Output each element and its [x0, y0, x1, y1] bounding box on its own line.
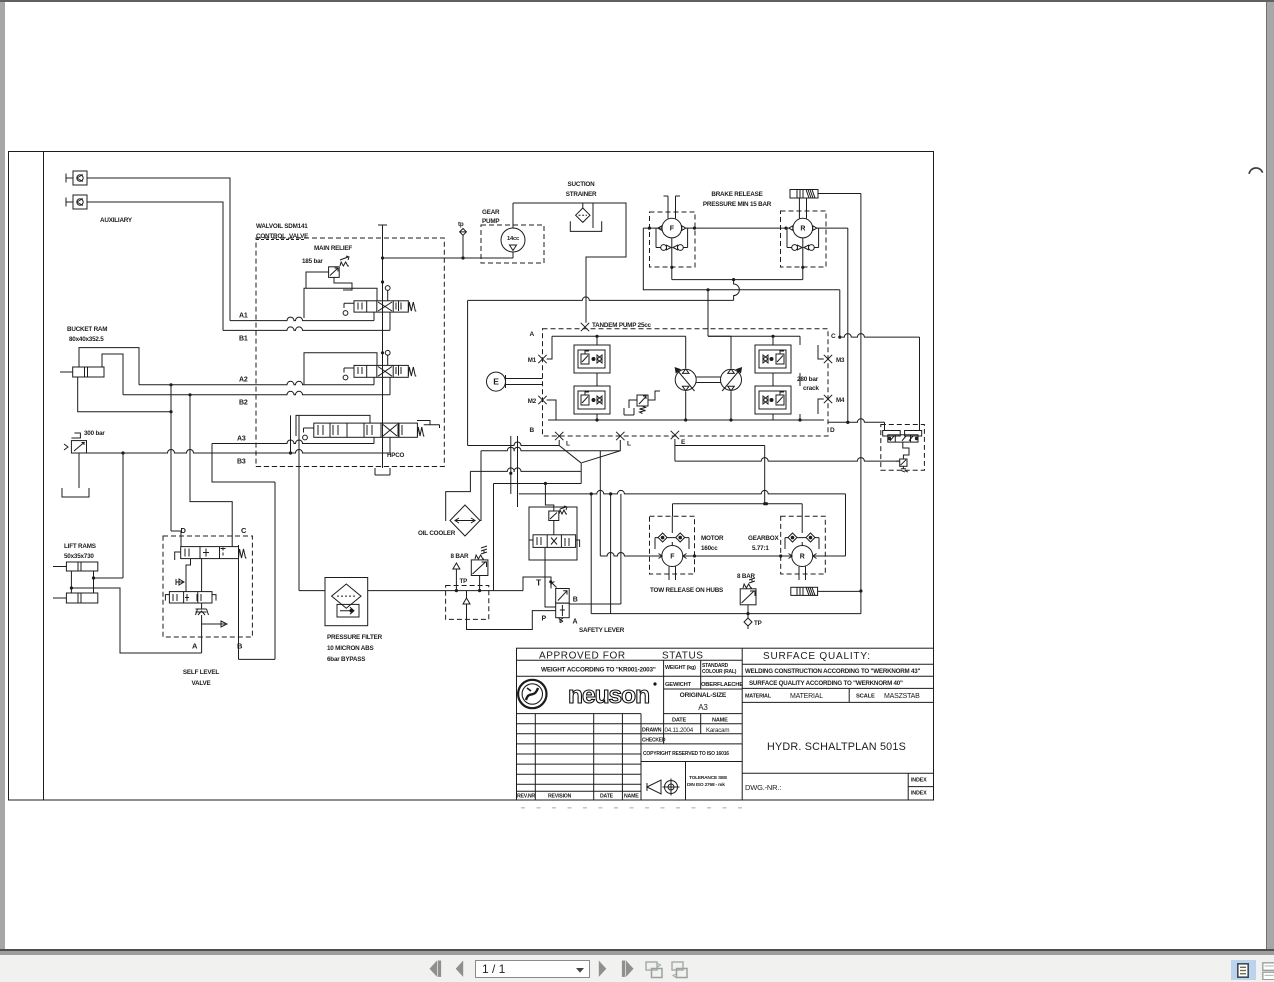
vertical F feed: [672, 504, 674, 517]
suction line: [513, 203, 626, 323]
safety lever valve: [550, 581, 570, 623]
relief pilot step: [334, 277, 352, 290]
cylinder lift ram 1: [53, 562, 98, 571]
cylinder lift ram 2: [53, 593, 98, 603]
print artifacts below frame: [521, 807, 742, 809]
svg-text:C: C: [831, 333, 836, 340]
svg-text:DWG.-NR.:: DWG.-NR.:: [745, 783, 781, 792]
svg-text:BUCKET RAM: BUCKET RAM: [67, 326, 107, 333]
svg-text:OIL COOLER: OIL COOLER: [418, 530, 456, 537]
vertical return to filter: [493, 484, 495, 591]
wire filter feed: [299, 590, 325, 592]
svg-text:DIN ISO 2768 - mk: DIN ISO 2768 - mk: [687, 782, 725, 788]
wire A1: [230, 317, 374, 320]
svg-text:OBERFLAECHE: OBERFLAECHE: [701, 682, 743, 688]
relief valve 300 bar: [64, 433, 87, 453]
material row: [742, 688, 933, 702]
spool 2 lever: [344, 368, 354, 373]
svg-text:P: P: [542, 616, 547, 623]
svg-text:M2: M2: [528, 398, 537, 405]
vertical charge drop 1: [510, 436, 512, 494]
svg-text:E: E: [493, 377, 499, 387]
oil cooler right drop: [480, 520, 481, 522]
svg-text:TP: TP: [754, 620, 762, 627]
svg-text:PRESSURE FILTER: PRESSURE FILTER: [327, 634, 383, 641]
wire F-R bottom return: [672, 279, 803, 281]
quick coupler AUX1: [66, 171, 87, 185]
wire pump to valve: [383, 257, 514, 259]
check valve in 8bar box: [463, 591, 470, 620]
original size cell: [664, 713, 743, 715]
svg-text:A3: A3: [698, 703, 708, 712]
svg-text:B: B: [237, 642, 243, 651]
svg-text:L: L: [566, 441, 570, 448]
svg-text:STRAINER: STRAINER: [566, 191, 597, 198]
drawing frame border: [9, 152, 934, 801]
svg-text:A: A: [192, 642, 198, 651]
drawn row: [641, 714, 742, 744]
svg-text:NAME: NAME: [624, 794, 639, 800]
gear pump 14cc: [501, 228, 525, 252]
tandem internal gallery left: [596, 335, 598, 345]
svg-text:M4: M4: [836, 397, 845, 404]
svg-text:Karacam: Karacam: [706, 727, 729, 734]
svg-text:L: L: [627, 441, 631, 448]
svg-text:M3: M3: [836, 357, 845, 364]
svg-text:R: R: [800, 226, 805, 233]
revision grid: [517, 714, 642, 800]
vertical to charge valve: [545, 484, 553, 512]
svg-text:5.77:1: 5.77:1: [752, 545, 769, 552]
test point M4: [824, 395, 832, 403]
valve spool 3 body: [314, 423, 418, 437]
self level A port: [201, 637, 203, 653]
svg-text:CHECKED: CHECKED: [642, 738, 666, 744]
wire B2 branch down: [190, 395, 232, 536]
vertical E drain drop: [674, 439, 676, 461]
svg-text:REV.NR: REV.NR: [517, 794, 535, 800]
svg-text:T: T: [536, 578, 542, 588]
valve 8bar square: [471, 546, 488, 591]
wire lift rams right link: [93, 571, 95, 593]
svg-text:F: F: [670, 226, 675, 233]
right trunk vertical from R: [847, 228, 849, 422]
svg-text:F: F: [670, 554, 675, 561]
wire filter to T: [523, 577, 551, 591]
wire bus C into relief: [896, 460, 900, 462]
continuous view icon (cut off at edge): [1262, 962, 1274, 980]
gear pump enclosure: [481, 225, 544, 263]
wheel motor F front: [650, 196, 696, 280]
svg-text:PUMP: PUMP: [482, 218, 499, 225]
wire lift rams to B3 branch: [94, 577, 124, 579]
wire lift rams to A port: [71, 588, 201, 653]
nav: last page button: [621, 960, 634, 978]
vertical safety B riser: [620, 494, 622, 604]
relief pilot left stub: [306, 272, 329, 288]
charge valve block: [529, 506, 580, 560]
title block outer: [517, 648, 934, 800]
wire filter out: [368, 590, 523, 592]
svg-text:E: E: [681, 439, 686, 446]
svg-text:CONTROL_VALVE: CONTROL_VALVE: [256, 233, 308, 240]
wire A2 branch down: [170, 385, 172, 531]
control valve enclosure WALVOIL SDM141: [256, 238, 444, 467]
svg-text:10 MICRON ABS: 10 MICRON ABS: [327, 645, 374, 652]
single page view icon (selected, blue): [1231, 960, 1256, 980]
test point M3: [824, 355, 832, 363]
wire bus A right: [675, 445, 765, 447]
svg-text:WELDING CONSTRUCTION ACCORDI: WELDING CONSTRUCTION ACCORDING TO "WERKN…: [745, 668, 920, 675]
svg-text:COPYRIGHT RESERVED TO ISO: COPYRIGHT RESERVED TO ISO 16016: [643, 751, 729, 757]
title block gewicht row: [664, 688, 743, 690]
wire return jog: [734, 280, 740, 301]
wire 8bar drain to safety P: [467, 611, 556, 630]
svg-text:VALVE: VALVE: [191, 680, 210, 687]
spool 3 top ticks: [417, 421, 440, 429]
test point E drain: [671, 431, 679, 439]
svg-text:A1: A1: [239, 313, 248, 320]
svg-text:APPROVED FOR: APPROVED FOR: [539, 650, 626, 661]
svg-text:SAFETY LEVER: SAFETY LEVER: [579, 627, 625, 634]
svg-text:6bar BYPASS: 6bar BYPASS: [327, 656, 365, 663]
spool 1 pilot circle: [385, 286, 390, 291]
spool 3 pilot loop: [296, 415, 370, 436]
wire bucket ram cap to A2: [79, 348, 139, 385]
valve 8bar bottom: [740, 578, 756, 614]
spool 1 pilot loop: [304, 288, 377, 318]
tandem relief small: [624, 391, 660, 415]
pump left top feed: [685, 336, 687, 368]
svg-text:SURFACE QUALITY:: SURFACE QUALITY:: [763, 651, 871, 662]
vertical bus F right leg: [845, 494, 847, 556]
svg-text:80x40x352.5: 80x40x352.5: [69, 336, 104, 343]
pump shaft: [696, 377, 720, 383]
svg-text:D: D: [181, 526, 187, 535]
tandem internal top bus: [552, 335, 686, 337]
wire bus D: [470, 468, 581, 472]
vertical to oil cooler right: [480, 451, 482, 521]
wire return upper: [643, 289, 840, 291]
check block top-right: [755, 345, 791, 373]
svg-text:SURFACE QUALITY ACCORDING T: SURFACE QUALITY ACCORDING TO "WERKNORM 4…: [749, 680, 903, 687]
wire lift rams left link: [70, 571, 72, 593]
wire motor top rail: [673, 503, 803, 505]
svg-text:neuson: neuson: [568, 682, 649, 709]
wire main return lower: [468, 297, 734, 300]
nav: next page button: [598, 960, 607, 978]
loading spinner arc: [1244, 160, 1268, 184]
wire AUX1 to A1: [87, 178, 230, 321]
vertical charge drop 2: [517, 436, 519, 507]
svg-text:8 BAR: 8 BAR: [451, 553, 470, 560]
wire AUX2 to B1: [87, 202, 223, 330]
spool 1 port stubs: [374, 312, 390, 330]
wire bus C: [675, 458, 900, 462]
test point M2: [538, 396, 546, 404]
dwg nr row: [742, 773, 933, 800]
wire C to right valve: [840, 334, 920, 337]
spool 1 lever: [344, 303, 354, 308]
top gray bar: [0, 0, 1274, 2]
wire A3: [212, 440, 374, 443]
svg-text:TANDEM PUMP 25cc: TANDEM PUMP 25cc: [592, 322, 652, 329]
wire R drain dot: [801, 266, 804, 269]
wire F-R connect: [686, 227, 789, 229]
svg-text:PRESSURE MIN 15 BAR: PRESSURE MIN 15 BAR: [703, 201, 772, 208]
brake pilot trunk vertical: [860, 194, 862, 614]
vertical trunk drop x765: [764, 446, 766, 504]
svg-text:M1: M1: [528, 357, 537, 364]
wire relief to tank: [78, 453, 80, 488]
wire bus E: [494, 483, 582, 485]
spool 1 spring: [408, 302, 416, 311]
vertical drop x610: [610, 494, 612, 614]
svg-text:50x35x730: 50x35x730: [64, 553, 94, 560]
svg-text:TOW RELEASE ON HUBS: TOW RELEASE ON HUBS: [650, 587, 723, 594]
svg-text:B2: B2: [239, 400, 248, 407]
svg-text:A: A: [573, 619, 578, 626]
wire into towing valve top: [884, 422, 886, 430]
test point L1: [555, 432, 563, 440]
rotate ccw icon (disabled): [645, 961, 664, 979]
vertical spool3 drain to filter: [298, 415, 300, 590]
check block bottom-right: [755, 386, 791, 414]
wire B2: [123, 391, 390, 394]
pump circle right: [721, 368, 742, 391]
svg-text:BRAKE RELEASE: BRAKE RELEASE: [711, 191, 762, 198]
spool 3 port stubs: [374, 437, 390, 453]
tandem M2 stub: [547, 400, 556, 420]
suction strainer filter: [576, 203, 590, 222]
svg-text:B: B: [573, 597, 578, 604]
svg-text:C: C: [241, 526, 247, 535]
self level internal wires: [186, 559, 202, 592]
wire R right port: [813, 555, 846, 557]
wire B3: [87, 450, 391, 454]
wire brake release to main: [818, 193, 861, 195]
svg-text:TOLERANCE SEE: TOLERANCE SEE: [689, 775, 728, 781]
check block bottom-left: [574, 386, 610, 414]
pump left bottom: [685, 392, 687, 421]
spool 2 port stubs: [374, 377, 390, 395]
svg-text:GEARBOX: GEARBOX: [748, 535, 779, 542]
svg-text:NAME: NAME: [712, 717, 728, 723]
svg-text:MAIN RELIEF: MAIN RELIEF: [314, 245, 352, 252]
svg-text:SUCTION: SUCTION: [568, 181, 596, 188]
svg-text:300 bar: 300 bar: [84, 430, 105, 437]
wheel motor F bottom: [650, 516, 695, 580]
wheel motor R rear: [781, 198, 827, 280]
svg-text:COLOUR (RAL): COLOUR (RAL): [702, 669, 737, 675]
neuson logo: [518, 680, 657, 709]
welding row: [742, 648, 933, 800]
tandem right gallery: [772, 336, 774, 345]
vertical pilot drop: [590, 494, 592, 614]
svg-text:DATE: DATE: [672, 717, 686, 723]
tolerance cell: [647, 762, 728, 801]
svg-text:GEAR: GEAR: [482, 209, 500, 216]
wire bucket ram rod to B2: [102, 354, 123, 395]
control valve bottom edge: [256, 466, 444, 468]
svg-text:INDEX: INDEX: [911, 791, 927, 797]
right gray strip: [1266, 2, 1274, 950]
vertical to C corner: [839, 290, 841, 337]
svg-text:WALVOIL SDM141: WALVOIL SDM141: [256, 223, 308, 230]
spool 2 spring: [408, 367, 416, 376]
pressure filter: [325, 578, 368, 626]
vertical right valve feed: [919, 337, 921, 430]
wire brake bottom to trunk: [818, 590, 861, 592]
svg-text:14cc: 14cc: [507, 236, 520, 242]
svg-text:crack: crack: [803, 385, 819, 392]
left gray strip: [0, 2, 5, 950]
svg-text:STATUS: STATUS: [662, 650, 704, 661]
svg-text:B3: B3: [237, 459, 246, 466]
self level B port wire: [238, 545, 240, 559]
self level valve enclosure: [163, 536, 252, 637]
frame margin column line: [43, 152, 45, 801]
svg-text:DRAWN: DRAWN: [642, 728, 662, 734]
tandem M3 stub: [818, 345, 824, 359]
svg-text:WEIGHT ACCORDING TO "KR001-: WEIGHT ACCORDING TO "KR001-2003": [541, 667, 656, 674]
svg-text:R: R: [800, 554, 805, 561]
tandem internal bottom bus: [548, 419, 824, 421]
tandem M1 stub: [547, 336, 552, 359]
test point TP mid: [453, 563, 467, 591]
tandem M4 stub: [818, 399, 824, 414]
wire B1: [223, 327, 390, 331]
wire bottom drain bus: [591, 613, 861, 615]
oil cooler: [450, 505, 480, 536]
svg-text:A3: A3: [237, 436, 246, 443]
valve spool 1 body: [354, 301, 408, 312]
test point TP bottom: [744, 614, 762, 629]
nav: prev page button: [455, 960, 464, 978]
test point tp: [458, 221, 466, 258]
wire charge valve drain: [545, 560, 556, 607]
svg-text:MOTOR: MOTOR: [701, 535, 724, 542]
svg-text:SCALE: SCALE: [856, 694, 875, 700]
quick coupler AUX2: [66, 195, 87, 209]
vertical spool3 drain to B3: [290, 415, 292, 453]
L1 stub and V left: [559, 440, 581, 463]
towing valve spools: [883, 431, 922, 443]
V vertex drop: [580, 463, 582, 484]
vertical drop x600: [599, 451, 601, 556]
brake release cylinder bottom: [791, 587, 818, 595]
svg-text:A2: A2: [239, 377, 248, 384]
test point L2: [616, 432, 624, 440]
spool 2 pilot circle: [385, 350, 390, 355]
bottom toolbar: [0, 955, 1274, 982]
oil cooler left loop: [446, 471, 471, 521]
8 bar valve enclosure: [446, 586, 489, 620]
title block header row: [517, 659, 743, 661]
cylinder bucket ram: [60, 367, 104, 377]
vertical A3-B feed: [274, 482, 276, 659]
tandem pump enclosure: [543, 329, 829, 436]
svg-text:TP: TP: [460, 578, 468, 585]
wire gear pump suction: [512, 203, 514, 258]
tank under control valve: [375, 468, 390, 475]
svg-text:B1: B1: [239, 336, 248, 343]
engine E: [487, 372, 543, 391]
test point M1: [538, 355, 546, 363]
brake release cylinder top: [790, 190, 818, 199]
svg-text:GEWICHT: GEWICHT: [665, 682, 692, 688]
tank symbol 300bar: [62, 488, 89, 497]
wheel motor R bottom: [781, 504, 826, 580]
svg-text:160cc: 160cc: [701, 545, 718, 552]
nav: first page button: [429, 960, 442, 978]
svg-text:B: B: [530, 427, 535, 434]
svg-text:MASZSTAB: MASZSTAB: [884, 693, 920, 700]
rotate cw icon (disabled): [671, 961, 690, 979]
wire D bus: [828, 419, 885, 423]
wire F-R bottom connect: [683, 555, 792, 557]
svg-text:AUXILIARY: AUXILIARY: [100, 217, 133, 224]
svg-text:WEIGHT (kg): WEIGHT (kg): [665, 665, 696, 671]
tandem right edge feeds: [799, 336, 801, 420]
L2 stub and V right: [582, 440, 621, 463]
supply gallery vertical: [382, 225, 384, 468]
self level check: [176, 579, 184, 585]
self level shuttle: [196, 609, 209, 615]
valve spool 2 body: [354, 365, 408, 377]
spool 3 lever: [304, 428, 314, 433]
spool 2 pilot loop: [304, 353, 377, 385]
relief valve main 185bar: [329, 256, 349, 277]
tank suction: [570, 221, 601, 231]
title block weight row: [517, 675, 743, 677]
copyright cell: [641, 761, 742, 763]
svg-text:LIFT RAMS: LIFT RAMS: [64, 543, 96, 550]
wire F left feed: [643, 228, 662, 290]
self level top spool: [175, 547, 247, 560]
wire bus F: [519, 490, 846, 493]
wire bus B: [481, 447, 620, 450]
wire bus A left: [468, 442, 560, 445]
vertical from return to bus: [467, 300, 469, 445]
page bottom edge: [0, 949, 1274, 951]
pump circle left: [675, 368, 696, 391]
spool 3 spring: [417, 427, 424, 436]
wire R to right trunk: [817, 227, 848, 229]
check block top-left: [574, 345, 610, 373]
svg-text:MATERIAL: MATERIAL: [790, 693, 823, 700]
wire F left port: [600, 553, 662, 557]
pump right feeds: [708, 290, 731, 420]
svg-text:ORIGINAL-SIZE: ORIGINAL-SIZE: [680, 692, 727, 699]
towing valve relief: [900, 442, 909, 472]
svg-text:MATERIAL: MATERIAL: [745, 694, 772, 700]
svg-text:D: D: [830, 427, 835, 434]
towing valve enclosure: [881, 425, 925, 471]
svg-text:REVISION: REVISION: [548, 794, 572, 800]
wire A3 left drop: [212, 444, 275, 483]
svg-text:tp: tp: [458, 221, 464, 228]
svg-text:HYDR. SCHALTPLAN 501S: HYDR. SCHALTPLAN 501S: [767, 741, 906, 753]
page number box: [475, 960, 590, 978]
svg-text:DATE: DATE: [600, 794, 614, 800]
self level bottom spool: [165, 592, 216, 603]
tandem pump inlet X: [581, 323, 589, 331]
svg-text:04.11.2004: 04.11.2004: [665, 727, 694, 734]
wire bucket ram drain: [78, 377, 171, 412]
surface row: [742, 687, 933, 689]
svg-text:185 bar: 185 bar: [302, 258, 323, 265]
